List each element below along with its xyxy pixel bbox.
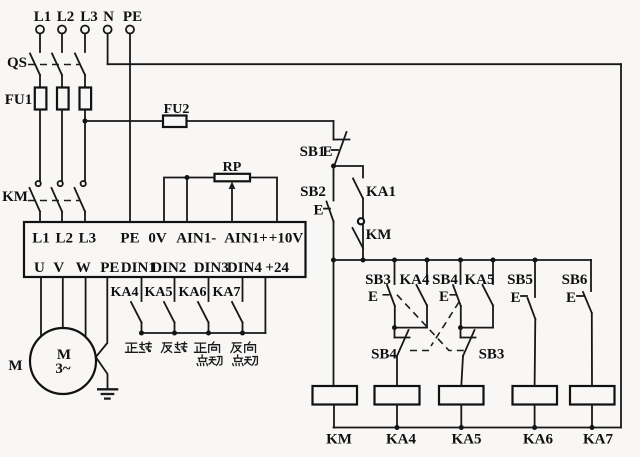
svg-text:DIN2: DIN2	[151, 260, 186, 276]
node junction rung1	[392, 325, 397, 330]
wire L2 drop to QS	[61, 34, 63, 53]
wire KA7 to bus	[242, 323, 244, 334]
pushbutton SB6 actuator link	[577, 295, 583, 297]
pushbutton SB4 NC tick	[395, 337, 410, 339]
svg-text:PE: PE	[120, 231, 139, 247]
wire SB2 branch	[333, 166, 335, 201]
node L3 terminal	[80, 9, 98, 34]
wire DIN3 stub	[208, 277, 210, 301]
contact KA6 blade	[198, 302, 209, 323]
svg-text:KM: KM	[2, 189, 28, 205]
svg-text:0V: 0V	[148, 231, 167, 247]
wire V to motor	[62, 277, 64, 329]
mechanical link SB4 dashed	[450, 294, 460, 296]
svg-text:KA7: KA7	[213, 285, 241, 300]
svg-text:V: V	[53, 260, 64, 276]
potentiometer RP body	[215, 174, 251, 182]
wire SB1 drop from FU2 line	[333, 121, 335, 140]
label diandong (jog) 2	[233, 355, 258, 366]
svg-text:+10V: +10V	[269, 231, 304, 247]
node junction SB5 bus	[533, 258, 538, 263]
node junction KA6 bus	[206, 331, 211, 336]
relay contact KA5 blade	[483, 285, 494, 306]
pushbutton SB1 actuator link	[332, 149, 339, 151]
node junction SB2 bus	[331, 258, 336, 263]
wire KA5 contact stub	[492, 260, 494, 284]
pushbutton SB4 NC blade	[397, 330, 409, 356]
switch QS pole 2 blade	[52, 54, 62, 76]
contactor KM pole2 blade	[52, 188, 63, 212]
wire KA5 to bus	[174, 323, 176, 334]
wire FU2 branch horizontal	[85, 120, 334, 122]
pushbutton SB3 NC tick	[461, 337, 476, 339]
contactor KM pole1 fixed hook	[36, 181, 41, 186]
node junction KA4 rail	[395, 425, 400, 430]
relay contact KA1 blade	[353, 179, 363, 199]
wire SB6 to KA7 coil	[591, 313, 593, 386]
wire RP right arm to +10V	[250, 178, 277, 223]
wire DIN4 stub	[242, 277, 244, 301]
label zhengxiang (forward direction)	[195, 342, 220, 353]
ground symbol	[97, 389, 118, 398]
wire FU1 to KM pole2	[61, 110, 63, 182]
svg-text:RP: RP	[223, 160, 242, 175]
node junction KA5 bus	[172, 331, 177, 336]
svg-text:E: E	[368, 289, 378, 305]
svg-text:KA6: KA6	[179, 285, 207, 300]
time-delay ring on KA1 branch	[358, 218, 364, 224]
svg-text:W: W	[76, 260, 91, 276]
node junction SB1 bottom	[331, 164, 336, 169]
svg-text:FU1: FU1	[5, 92, 33, 108]
switch QS linkage dashed	[28, 64, 80, 66]
wire U to motor	[40, 277, 42, 338]
wire PE to ground with motor frame tap	[96, 277, 108, 389]
potentiometer RP wiper arrow	[229, 182, 236, 190]
svg-text:SB3: SB3	[479, 347, 505, 363]
wire KA1 to KM contact	[362, 199, 364, 261]
pushbutton SB6 blade	[583, 292, 592, 313]
svg-text:L1: L1	[34, 9, 52, 25]
svg-text:DIN3: DIN3	[194, 260, 229, 276]
coil KA7	[570, 386, 615, 405]
svg-text:SB4: SB4	[371, 347, 397, 363]
wire KM pole3 to box	[84, 212, 86, 223]
label zhengzhuan (forward)	[126, 342, 152, 352]
contactor KM linkage dashed	[28, 200, 80, 202]
wire KA4 to bus	[141, 323, 143, 334]
node PE terminal	[123, 9, 142, 34]
wire rung1 to SB4 NC	[394, 328, 396, 338]
svg-text:L2: L2	[55, 231, 73, 247]
wire RP 0V branch	[186, 178, 188, 223]
wire SB3 stub	[394, 260, 396, 284]
svg-text:KA4: KA4	[111, 285, 139, 300]
svg-text:U: U	[34, 260, 45, 276]
svg-text:L2: L2	[57, 9, 75, 25]
svg-text:M: M	[8, 358, 22, 374]
svg-text:KA4: KA4	[386, 432, 417, 448]
svg-text:KA1: KA1	[366, 184, 396, 200]
wire FU1 to KM pole1	[39, 110, 41, 182]
pushbutton SB5 blade	[528, 298, 536, 319]
svg-text:N: N	[103, 9, 114, 25]
mechanical link SB3 dashed	[383, 294, 391, 296]
wire QS to FU1 pole2	[61, 75, 63, 88]
wire SB4 to rung node	[460, 306, 462, 328]
wire QS to FU1 pole3	[84, 75, 86, 88]
node junction FU2 tap on L3	[83, 119, 88, 124]
wire FU1 to KM pole3	[84, 110, 86, 182]
svg-text:QS: QS	[7, 55, 27, 71]
wire PE vertical to box	[129, 34, 131, 223]
svg-text:DIN4: DIN4	[227, 260, 263, 276]
svg-text:PE: PE	[123, 9, 142, 25]
wire bottom rail	[334, 427, 622, 429]
svg-text:KA7: KA7	[583, 432, 614, 448]
node junction RP left	[185, 175, 190, 180]
wire rung1 rejoin	[395, 327, 428, 329]
wire KM coil drop	[333, 260, 335, 386]
wire SB5 to KA6 coil	[534, 319, 537, 386]
wire DIN2 stub	[174, 277, 176, 301]
pushbutton SB2 actuator link	[324, 208, 330, 210]
svg-text:AIN1-: AIN1-	[176, 231, 216, 247]
wire SB4 stub	[460, 260, 462, 284]
svg-text:KM: KM	[326, 432, 352, 448]
wire L3 drop to QS	[84, 34, 86, 53]
wire KA6 coil to rail	[534, 405, 536, 428]
pushbutton SB2 blade	[327, 202, 334, 222]
wire RP wiper to AIN1+	[231, 186, 233, 222]
contactor KM pole2 fixed hook	[58, 181, 63, 186]
svg-text:E: E	[510, 290, 520, 306]
svg-text:SB2: SB2	[300, 184, 326, 200]
coil KM	[313, 386, 358, 405]
wire control bus	[334, 259, 592, 261]
wire RP left arm	[164, 178, 215, 223]
svg-text:FU2: FU2	[164, 102, 190, 117]
contact KA5 blade	[164, 302, 175, 323]
svg-text:AIN1+: AIN1+	[224, 231, 268, 247]
node junction SB3 bus	[392, 258, 397, 263]
node junction KA5 rail	[459, 425, 464, 430]
pushbutton SB3 blade	[387, 285, 395, 306]
wire KA1 branch top	[334, 166, 364, 178]
wire KA5 coil to rail	[460, 405, 462, 428]
wire KM pole2 to box	[61, 212, 63, 223]
node junction KA7 rail	[590, 425, 595, 430]
fuse FU1 pole2	[57, 88, 69, 110]
svg-text:+24: +24	[265, 260, 289, 276]
node N terminal	[103, 9, 114, 34]
mechanical link SB4 diagonal dashed	[406, 302, 459, 351]
svg-text:PE: PE	[100, 260, 119, 276]
svg-text:SB3: SB3	[365, 272, 391, 288]
svg-text:SB4: SB4	[432, 272, 458, 288]
wire SB6 corner drop	[590, 260, 592, 291]
switch QS pole 3 blade	[75, 54, 85, 76]
fuse FU2	[163, 116, 187, 128]
wire SB4 NC to KA4 coil	[396, 356, 398, 386]
svg-text:KA6: KA6	[523, 432, 554, 448]
label fanxiang (reverse direction)	[231, 342, 256, 353]
svg-text:L1: L1	[32, 231, 50, 247]
node junction KA6 rail	[532, 425, 537, 430]
wire KA5 contact down	[492, 306, 494, 328]
wire KA4 coil to rail	[396, 405, 398, 428]
svg-text:L3: L3	[80, 9, 98, 25]
node junction KA4 bus	[139, 331, 144, 336]
wire rung2 rejoin	[461, 327, 494, 329]
node junction SB4 bus	[458, 258, 463, 263]
pushbutton SB5 actuator link	[521, 295, 527, 297]
contactor KM pole1 blade	[30, 188, 41, 212]
wire KM coil to rail	[333, 405, 335, 428]
contactor contact KM blade	[353, 228, 364, 248]
wire L1 drop to QS	[39, 34, 41, 53]
wire KA6 to bus	[208, 323, 210, 334]
wire W to motor	[85, 277, 87, 338]
wire KA4 contact stub	[426, 260, 428, 284]
switch QS pole 1 blade	[30, 54, 40, 76]
coil KA4	[375, 386, 420, 405]
contactor KM pole3 fixed hook	[81, 181, 86, 186]
pushbutton SB3 NC blade	[463, 330, 475, 356]
svg-text:E: E	[322, 144, 332, 160]
node junction KM contact bus	[361, 258, 366, 263]
label diandong (jog) 1	[197, 355, 222, 366]
wire N right rail down to bottom rail	[620, 64, 622, 427]
pushbutton SB1 NC tick	[334, 139, 350, 141]
fuse FU1 pole1	[35, 88, 47, 110]
wire DIN common bus	[142, 332, 266, 334]
node L2 terminal	[57, 9, 75, 34]
wire SB2 to bus	[333, 222, 335, 261]
motor M1 body	[30, 328, 96, 394]
wire SB3 to rung node	[394, 306, 396, 328]
coil KA5	[439, 386, 484, 405]
coil KA6	[513, 386, 558, 405]
svg-text:KA5: KA5	[465, 272, 495, 288]
node junction rung2	[458, 325, 463, 330]
svg-text:E: E	[313, 203, 323, 219]
svg-text:3~: 3~	[55, 361, 71, 377]
wire DIN1 stub	[141, 277, 143, 301]
svg-text:E: E	[566, 290, 576, 306]
svg-text:KM: KM	[366, 227, 392, 243]
wire KA7 coil to rail	[591, 405, 593, 428]
contact KA7 blade	[232, 302, 243, 323]
wire SB3 NC to KA5 coil	[461, 356, 463, 386]
wire QS to FU1 pole1	[39, 75, 41, 88]
mechanical link SB3 diagonal dashed	[397, 295, 466, 351]
contactor KM pole3 blade	[75, 188, 86, 212]
fuse FU1 pole3	[80, 88, 92, 110]
inverter U1 box	[24, 222, 306, 277]
svg-text:KA5: KA5	[145, 285, 173, 300]
svg-text:E: E	[439, 289, 449, 305]
svg-text:KA5: KA5	[452, 432, 482, 448]
wire N horizontal run to right rail	[108, 63, 621, 65]
node junction KA4 contact bus	[425, 258, 430, 263]
pushbutton SB1 blade	[334, 132, 347, 167]
node L1 terminal	[34, 9, 52, 34]
wire rung2 to SB3 NC	[460, 328, 462, 338]
wire SB5 stub	[534, 260, 536, 297]
node junction KA7 bus	[240, 331, 245, 336]
wire KA4 contact down	[426, 306, 428, 328]
wire +24 riser	[264, 277, 266, 333]
wire KM pole1 to box	[39, 212, 41, 223]
svg-text:SB6: SB6	[562, 272, 588, 288]
node junction KA5 contact bus	[491, 258, 496, 263]
svg-text:SB5: SB5	[507, 272, 533, 288]
pushbutton SB4 blade	[453, 285, 461, 306]
svg-text:L3: L3	[79, 231, 97, 247]
label fanzhuan (reverse)	[161, 342, 187, 352]
svg-text:KA4: KA4	[400, 272, 431, 288]
relay contact KA4 blade	[417, 285, 428, 306]
wire N drop	[107, 34, 109, 65]
contact KA4 blade	[131, 302, 142, 323]
